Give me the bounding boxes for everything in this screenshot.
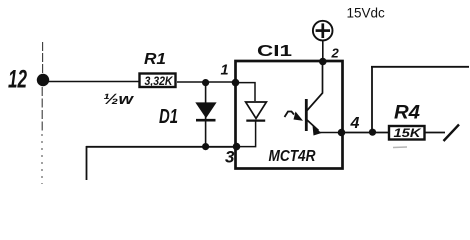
- svg-text:15K: 15K: [394, 126, 423, 140]
- svg-text:2: 2: [331, 46, 340, 61]
- svg-text:3,32K: 3,32K: [145, 74, 174, 88]
- svg-text:CI1: CI1: [257, 43, 292, 60]
- svg-text:1: 1: [221, 63, 229, 79]
- svg-text:MCT4R: MCT4R: [269, 148, 317, 165]
- svg-text:3: 3: [225, 148, 235, 167]
- svg-text:12: 12: [8, 66, 27, 94]
- svg-text:D1: D1: [159, 106, 178, 128]
- svg-text:R4: R4: [394, 103, 420, 124]
- svg-text:R1: R1: [144, 51, 166, 68]
- svg-text:½w: ½w: [103, 92, 135, 108]
- svg-text:15Vdc: 15Vdc: [347, 6, 386, 21]
- svg-text:4: 4: [350, 115, 360, 132]
